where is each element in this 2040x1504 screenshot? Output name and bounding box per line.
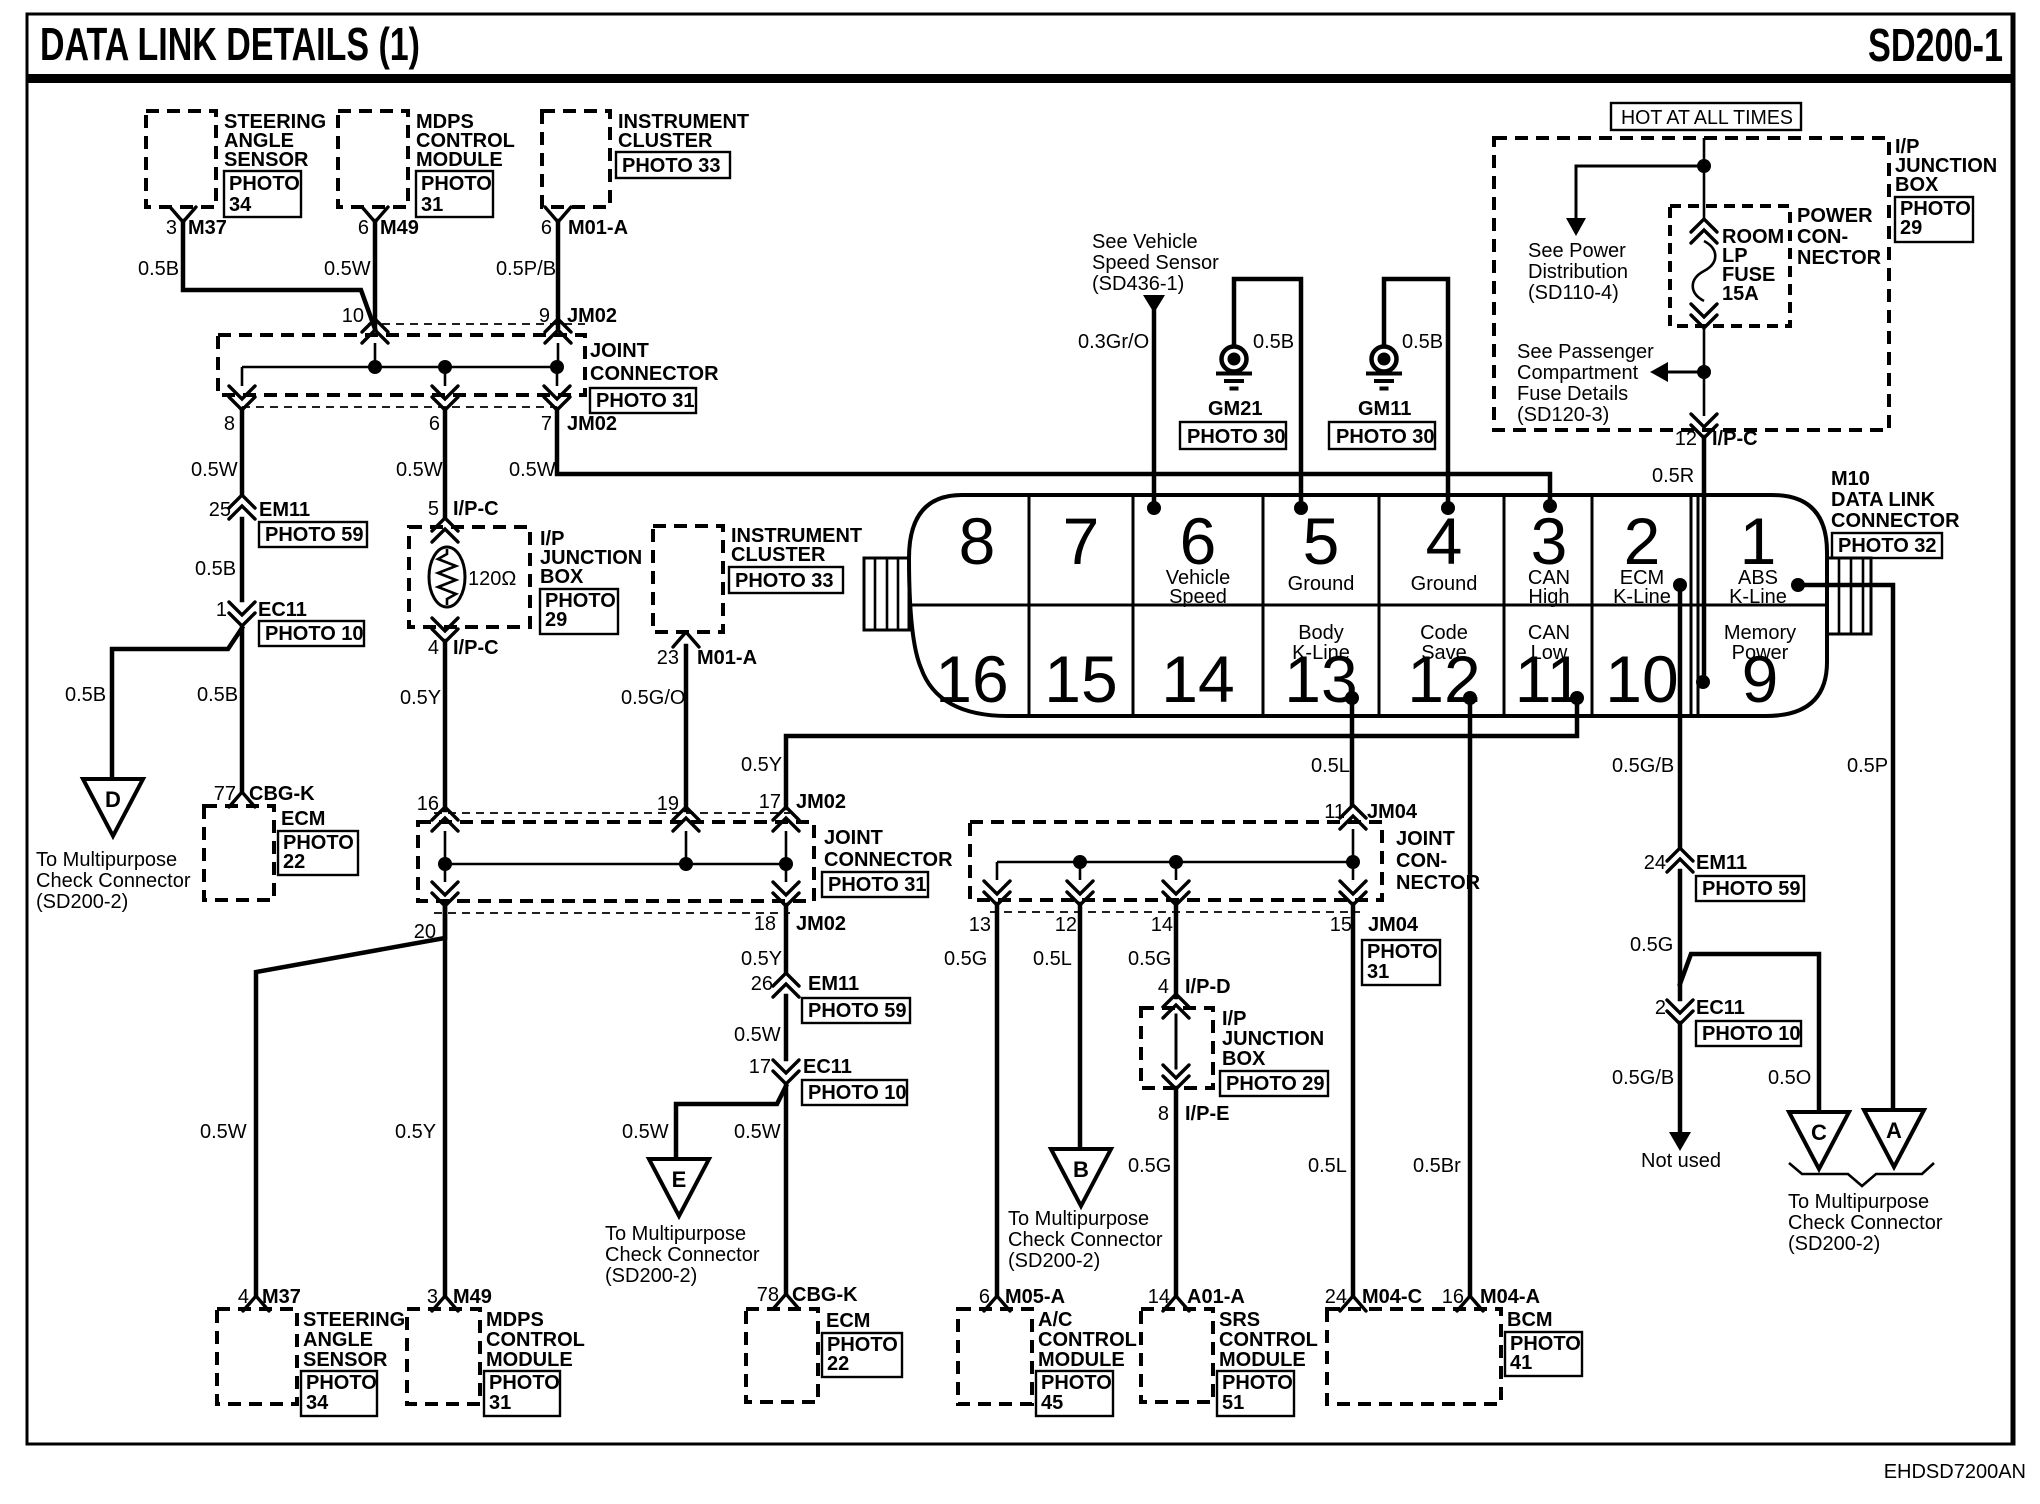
arrow not used — [1669, 1132, 1691, 1151]
svg-text:PHOTO 10: PHOTO 10 — [1702, 1023, 1801, 1045]
svg-text:EM11: EM11 — [1696, 852, 1747, 874]
svg-text:77: 77 — [214, 783, 236, 805]
svg-text:JM02: JM02 — [567, 305, 617, 327]
svg-text:PHOTO 10: PHOTO 10 — [808, 1082, 907, 1104]
photo 29 box (top right) — [1895, 197, 1973, 242]
svg-text:SD200-1: SD200-1 — [1868, 19, 2003, 71]
svg-text:24: 24 — [1325, 1286, 1347, 1308]
svg-text:JM04: JM04 — [1367, 801, 1418, 823]
svg-text:34: 34 — [229, 194, 252, 216]
wire branch 0.5O to C triangle — [1680, 954, 1819, 1112]
svg-text:CON-: CON- — [1396, 850, 1447, 872]
svg-text:NECTOR: NECTOR — [1797, 247, 1882, 269]
DLC pin 4 — [1411, 504, 1478, 595]
destination triangle A — [1864, 1110, 1924, 1167]
svg-text:PHOTO 59: PHOTO 59 — [1702, 878, 1801, 900]
svg-text:6: 6 — [358, 217, 369, 239]
node DLC pin 12 — [1463, 691, 1477, 705]
svg-text:0.5W: 0.5W — [191, 459, 238, 481]
svg-text:EM11: EM11 — [808, 973, 859, 995]
svg-text:STEERING: STEERING — [303, 1309, 405, 1331]
JM02 pin 7 out-arrow — [541, 386, 617, 435]
svg-text:PHOTO 59: PHOTO 59 — [808, 1000, 907, 1022]
svg-text:31: 31 — [421, 194, 443, 216]
svg-text:0.5Y: 0.5Y — [741, 754, 782, 776]
svg-text:JOINT: JOINT — [590, 340, 649, 362]
svg-text:(SD200-2): (SD200-2) — [1788, 1233, 1880, 1255]
svg-text:Speed: Speed — [1169, 586, 1227, 608]
svg-text:9: 9 — [539, 305, 550, 327]
arrow to passenger compartment fuse details — [1650, 362, 1704, 382]
connector I/P-D pin 4 — [1158, 976, 1231, 1018]
junction dot pin17 — [779, 857, 793, 871]
svg-text:E: E — [672, 1167, 687, 1192]
svg-text:8: 8 — [1158, 1103, 1169, 1125]
joint connector upper thin dashed lines — [242, 324, 585, 407]
svg-text:4: 4 — [1158, 976, 1169, 998]
svg-text:See Vehicle: See Vehicle — [1092, 231, 1198, 253]
steering angle sensor box (top) — [146, 111, 216, 207]
wire branch to E triangle — [676, 1086, 786, 1159]
svg-text:CON-: CON- — [1797, 226, 1848, 248]
svg-text:11: 11 — [1324, 801, 1345, 823]
ECM box (left) — [204, 806, 274, 900]
svg-text:13: 13 — [969, 914, 991, 936]
destination triangle B — [1051, 1149, 1111, 1206]
svg-text:0.3Gr/O: 0.3Gr/O — [1078, 331, 1149, 353]
svg-text:EHDSD7200AN: EHDSD7200AN — [1884, 1461, 2026, 1483]
svg-text:M04-A: M04-A — [1480, 1286, 1540, 1308]
svg-text:NECTOR: NECTOR — [1396, 872, 1481, 894]
svg-text:4: 4 — [1426, 504, 1463, 578]
svg-text:0.5Br: 0.5Br — [1413, 1155, 1461, 1177]
svg-text:11: 11 — [1515, 642, 1584, 716]
svg-text:M49: M49 — [380, 217, 419, 239]
svg-text:GM21: GM21 — [1208, 398, 1262, 420]
svg-text:PHOTO 30: PHOTO 30 — [1336, 426, 1435, 448]
svg-text:M04-C: M04-C — [1362, 1286, 1422, 1308]
svg-text:(SD436-1): (SD436-1) — [1092, 273, 1184, 295]
photo 22 box (left ECM) — [278, 831, 358, 875]
destination triangle D — [83, 779, 143, 836]
svg-text:22: 22 — [827, 1353, 849, 1375]
photo 32 box — [1832, 533, 1942, 558]
svg-text:CLUSTER: CLUSTER — [618, 130, 713, 152]
SRS control module box — [1141, 1309, 1213, 1402]
svg-text:I/P-C: I/P-C — [453, 498, 499, 520]
wire 0.5B GM11 to DLC pin4 — [1384, 279, 1448, 508]
svg-text:CONTROL: CONTROL — [486, 1329, 585, 1351]
svg-text:17: 17 — [749, 1056, 771, 1078]
svg-text:15A: 15A — [1722, 283, 1759, 305]
svg-text:High: High — [1528, 586, 1569, 608]
connector M37 pin 4 (bottom) — [238, 1286, 301, 1311]
svg-text:Memory: Memory — [1724, 622, 1796, 644]
JM02 pin 16 in-arrow — [417, 793, 458, 831]
room lamp fuse 15A — [1691, 219, 1784, 328]
svg-text:0.5P: 0.5P — [1847, 755, 1888, 777]
title separator bar — [27, 74, 2014, 83]
joint connector lower internal bus — [445, 831, 786, 882]
svg-text:Check Connector: Check Connector — [36, 870, 191, 892]
svg-text:CAN: CAN — [1528, 622, 1570, 644]
svg-text:JUNCTION: JUNCTION — [1222, 1028, 1324, 1050]
svg-text:Compartment: Compartment — [1517, 362, 1639, 384]
svg-text:PHOTO 31: PHOTO 31 — [596, 390, 695, 412]
svg-text:I/P: I/P — [1222, 1008, 1246, 1030]
svg-text:CONTROL: CONTROL — [1219, 1329, 1318, 1351]
photo 30 box (GM11) — [1329, 422, 1435, 449]
svg-text:10: 10 — [1605, 642, 1678, 716]
svg-text:Check Connector: Check Connector — [605, 1244, 760, 1266]
junction dot pin10 — [368, 360, 382, 374]
svg-text:PHOTO: PHOTO — [421, 173, 492, 195]
node memory power junction — [1696, 675, 1710, 689]
svg-text:CONNECTOR: CONNECTOR — [590, 363, 719, 385]
svg-text:M49: M49 — [453, 1286, 492, 1308]
svg-text:15: 15 — [1330, 914, 1352, 936]
svg-text:0.5W: 0.5W — [509, 459, 556, 481]
wire 0.5G/B not used — [1678, 1023, 1683, 1133]
svg-text:PHOTO: PHOTO — [1367, 941, 1438, 963]
svg-text:ECM: ECM — [826, 1310, 870, 1332]
svg-text:MODULE: MODULE — [1219, 1349, 1306, 1371]
destination triangle C — [1789, 1112, 1849, 1169]
photo 31 box (bottom MDPS) — [484, 1371, 560, 1416]
svg-text:45: 45 — [1041, 1392, 1063, 1414]
connector M01-A pin 6 — [541, 207, 628, 239]
wire 0.5W from M49 — [373, 221, 378, 329]
wire 0.5Br DLC pin12 to BCM — [1468, 700, 1473, 1296]
power connector box — [1670, 206, 1790, 326]
node DLC pin 6 — [1147, 501, 1161, 515]
svg-text:17: 17 — [759, 791, 781, 813]
photo 33 box (middle) — [729, 567, 843, 593]
connector I/P-C pin 4 — [428, 618, 499, 659]
svg-text:0.5R: 0.5R — [1652, 465, 1694, 487]
svg-text:3: 3 — [166, 217, 177, 239]
wire 0.5W pin20 to M37 — [256, 905, 445, 1296]
svg-text:BOX: BOX — [1222, 1048, 1266, 1070]
connector CBG-K pin 78 — [757, 1284, 858, 1309]
svg-text:A01-A: A01-A — [1187, 1286, 1245, 1308]
node power junction lower — [1697, 365, 1711, 379]
wire 0.5G JM04 pin13 to M05-A — [995, 904, 1000, 1296]
svg-text:4: 4 — [428, 637, 439, 659]
svg-text:0.5G/B: 0.5G/B — [1612, 1067, 1674, 1089]
JM04 internal bus — [997, 829, 1353, 880]
svg-text:I/P-C: I/P-C — [1712, 428, 1758, 450]
connector EM11 pin 26 — [751, 973, 859, 997]
connector I/P-C pin 12 — [1675, 414, 1758, 450]
svg-text:16: 16 — [935, 642, 1008, 716]
svg-text:29: 29 — [1900, 217, 1922, 239]
junction dot pin6 — [438, 360, 452, 374]
svg-text:MDPS: MDPS — [486, 1309, 544, 1331]
svg-text:13: 13 — [1284, 642, 1357, 716]
svg-text:Body: Body — [1298, 622, 1344, 644]
svg-text:23: 23 — [657, 647, 679, 669]
svg-text:51: 51 — [1222, 1392, 1244, 1414]
connector EC11 pin 1 — [216, 599, 307, 626]
svg-text:PHOTO: PHOTO — [306, 1372, 377, 1394]
svg-text:14: 14 — [1148, 1286, 1170, 1308]
connector A01-A pin 14 — [1148, 1286, 1245, 1311]
DLC right tab — [1827, 558, 1871, 634]
photo 22 box (bottom ECM) — [822, 1333, 902, 1377]
node DLC pin 11 — [1570, 691, 1584, 705]
wire 0.3Gr/O to DLC pin6 — [1152, 310, 1157, 508]
svg-text:0.5B: 0.5B — [195, 558, 236, 580]
svg-text:18: 18 — [754, 913, 776, 935]
photo 10 box (EC11 17) — [802, 1080, 907, 1105]
photo 34 box (top) — [224, 171, 301, 217]
svg-text:25: 25 — [209, 499, 231, 521]
svg-text:JOINT: JOINT — [1396, 828, 1455, 850]
photo 10 box (EC11 1) — [259, 621, 364, 646]
I/P junction box (lower) — [1141, 1008, 1213, 1088]
photo 59 box (EM11 25) — [259, 522, 367, 547]
ECM box (bottom) — [746, 1309, 818, 1402]
BCM box — [1327, 1309, 1501, 1404]
svg-text:BOX: BOX — [540, 566, 584, 588]
photo 34 box (bottom) — [301, 1371, 377, 1416]
svg-text:8: 8 — [224, 413, 235, 435]
wire inside I/P junction box — [1175, 1015, 1178, 1068]
wire 0.5P/B from M01-A — [556, 221, 561, 329]
svg-text:ECM: ECM — [281, 808, 325, 830]
svg-text:See Passenger: See Passenger — [1517, 341, 1654, 363]
svg-text:2: 2 — [1655, 997, 1666, 1019]
svg-text:0.5G/B: 0.5G/B — [1612, 755, 1674, 777]
svg-text:EM11: EM11 — [259, 499, 310, 521]
svg-text:ANGLE: ANGLE — [303, 1329, 373, 1351]
svg-text:26: 26 — [751, 973, 773, 995]
svg-text:0.5W: 0.5W — [396, 459, 443, 481]
photo 30 box (GM21) — [1180, 422, 1286, 449]
svg-text:0.5W: 0.5W — [200, 1121, 247, 1143]
resistor 120 ohm — [429, 547, 516, 607]
svg-text:To Multipurpose: To Multipurpose — [1788, 1191, 1929, 1213]
connector M37 pin 3 — [166, 207, 227, 239]
svg-text:0.5B: 0.5B — [1402, 331, 1443, 353]
svg-text:41: 41 — [1510, 1352, 1532, 1374]
svg-text:K-Line: K-Line — [1729, 586, 1787, 608]
svg-text:PHOTO 10: PHOTO 10 — [265, 623, 364, 645]
svg-text:16: 16 — [417, 793, 439, 815]
instrument cluster box (top) — [542, 111, 610, 207]
svg-text:Code: Code — [1420, 622, 1468, 644]
photo 41 box — [1505, 1332, 1582, 1376]
joint connector JM04 box — [970, 822, 1382, 900]
wire fuse to I/P-C 12 — [1703, 327, 1706, 416]
svg-text:0.5W: 0.5W — [734, 1024, 781, 1046]
svg-text:C: C — [1811, 1120, 1827, 1145]
svg-text:JM04: JM04 — [1368, 914, 1419, 936]
svg-text:JM02: JM02 — [796, 913, 846, 935]
destination triangle E — [649, 1159, 709, 1216]
svg-text:Distribution: Distribution — [1528, 261, 1628, 283]
JM02 pin 6 out-arrow — [429, 386, 458, 435]
connector EC11 pin 17 — [749, 1056, 852, 1084]
svg-text:POWER: POWER — [1797, 205, 1873, 227]
wire 0.5G JM04 pin14 to I/P-D — [1174, 904, 1179, 997]
svg-text:M05-A: M05-A — [1005, 1286, 1065, 1308]
photo 59 box (EM11 24) — [1696, 876, 1804, 901]
svg-text:22: 22 — [283, 851, 305, 873]
svg-text:PHOTO 30: PHOTO 30 — [1187, 426, 1286, 448]
svg-text:HOT AT ALL TIMES: HOT AT ALL TIMES — [1621, 107, 1793, 129]
connector M04-C pin 24 — [1325, 1286, 1422, 1311]
svg-text:0.5Y: 0.5Y — [400, 687, 441, 709]
svg-text:BCM: BCM — [1507, 1309, 1553, 1331]
arrow from vehicle speed sensor — [1143, 295, 1165, 313]
JM02 pin 19 in-arrow — [657, 793, 699, 831]
svg-text:0.5B: 0.5B — [138, 258, 179, 280]
svg-text:(SD110-4): (SD110-4) — [1528, 282, 1619, 304]
svg-text:PHOTO: PHOTO — [489, 1372, 560, 1394]
svg-text:To Multipurpose: To Multipurpose — [1008, 1208, 1149, 1230]
photo 31 box (top) — [416, 171, 493, 217]
svg-text:15: 15 — [1044, 642, 1117, 716]
svg-text:0.5B: 0.5B — [197, 684, 238, 706]
svg-text:K-Line: K-Line — [1613, 586, 1671, 608]
connector M49 pin 6 — [358, 207, 419, 239]
svg-text:0.5P/B: 0.5P/B — [496, 258, 556, 280]
connector M04-A pin 16 — [1442, 1286, 1540, 1311]
DLC left tab — [864, 558, 909, 630]
connector EC11 pin 2 — [1655, 997, 1745, 1024]
instrument cluster box (middle) — [653, 526, 723, 632]
wire 0.5G/B DLC pin2 down — [1678, 592, 1683, 847]
svg-text:(SD120-3): (SD120-3) — [1517, 404, 1609, 426]
svg-text:19: 19 — [657, 793, 679, 815]
connector EM11 pin 24 — [1644, 848, 1747, 874]
photo 51 box — [1217, 1371, 1294, 1416]
svg-text:Ground: Ground — [1288, 573, 1355, 595]
steering angle sensor box (bottom) — [217, 1309, 297, 1404]
svg-text:CONNECTOR: CONNECTOR — [1831, 510, 1960, 532]
wire 0.5P DLC pin1 to A triangle — [1798, 585, 1893, 1110]
photo 29 box (lower) — [1220, 1071, 1328, 1096]
DLC pin 13 — [1284, 622, 1357, 716]
DLC pin 12 — [1407, 622, 1480, 716]
photo 59 box (EM11 26) — [802, 998, 910, 1023]
wire battery feed into box — [1703, 138, 1706, 218]
svg-text:16: 16 — [1442, 1286, 1464, 1308]
node DLC pin 2 — [1673, 578, 1687, 592]
svg-text:To Multipurpose: To Multipurpose — [605, 1223, 746, 1245]
svg-text:0.5G: 0.5G — [1128, 948, 1171, 970]
brace under C and A triangles — [1789, 1163, 1934, 1186]
photo 33 box (top) — [616, 152, 730, 178]
junction dot pin16 — [438, 857, 452, 871]
svg-text:B: B — [1073, 1157, 1089, 1182]
svg-text:A/C: A/C — [1038, 1309, 1072, 1331]
svg-text:31: 31 — [489, 1392, 511, 1414]
junction dot JM04 14 — [1169, 855, 1183, 869]
svg-text:SRS: SRS — [1219, 1309, 1260, 1331]
photo 29 box (middle) — [540, 589, 618, 634]
JM04 pin 14 out-arrow — [1151, 881, 1189, 936]
JM02 pin 18 out-arrow — [754, 882, 846, 935]
joint connector internal bus — [242, 343, 558, 386]
JM04 pin 13 out-arrow — [969, 881, 1010, 936]
svg-text:SENSOR: SENSOR — [224, 149, 309, 171]
svg-text:8: 8 — [959, 504, 996, 578]
data link connector M10 outline — [909, 495, 1827, 716]
wire 0.5B GM21 to DLC pin5 — [1234, 279, 1301, 508]
junction dot pin9 — [550, 360, 564, 374]
svg-text:14: 14 — [1161, 642, 1234, 716]
svg-text:5: 5 — [1303, 504, 1340, 578]
svg-text:1: 1 — [216, 599, 227, 621]
wire 0.5W EM11 to EC11 (mid) — [784, 996, 789, 1059]
wire 0.5B from M37 to joint connector — [183, 221, 375, 329]
svg-text:EC11: EC11 — [803, 1056, 852, 1078]
svg-text:PHOTO 32: PHOTO 32 — [1838, 535, 1937, 557]
JM02 pin 8 out-arrow — [224, 386, 255, 435]
DLC cell dividers — [1029, 495, 1698, 716]
svg-text:78: 78 — [757, 1284, 779, 1306]
JM02 pin 9 in-arrow — [539, 305, 617, 343]
svg-text:4: 4 — [238, 1286, 249, 1308]
svg-text:CBG-K: CBG-K — [792, 1284, 858, 1306]
svg-text:Check Connector: Check Connector — [1008, 1229, 1163, 1251]
JM04 pin 15 out-arrow — [1330, 881, 1419, 936]
svg-text:EC11: EC11 — [258, 599, 307, 621]
wire 0.5W to CBG-K 78 — [784, 1086, 789, 1294]
svg-text:M37: M37 — [188, 217, 227, 239]
svg-text:0.5W: 0.5W — [324, 258, 371, 280]
svg-text:DATA LINK DETAILS (1): DATA LINK DETAILS (1) — [40, 18, 420, 70]
svg-text:PHOTO: PHOTO — [229, 173, 300, 195]
JM04 pin 11 in-arrow — [1324, 801, 1418, 829]
photo 45 box — [1036, 1371, 1113, 1416]
junction dot JM04 12 — [1073, 855, 1087, 869]
svg-text:0.5B: 0.5B — [1253, 331, 1294, 353]
wire 0.5B EM11 to EC11 — [240, 519, 245, 600]
svg-text:A: A — [1886, 1118, 1902, 1143]
svg-text:Fuse Details: Fuse Details — [1517, 383, 1628, 405]
wire 0.5Y pin20 to M49 — [443, 905, 448, 1296]
MDPS control module box (top) — [338, 111, 408, 207]
connector I/P-E pin 8 — [1158, 1065, 1230, 1125]
svg-text:0.5Y: 0.5Y — [741, 948, 782, 970]
svg-text:0.5G: 0.5G — [944, 948, 987, 970]
DLC pin 6 — [1166, 504, 1231, 608]
svg-text:0.5L: 0.5L — [1308, 1155, 1347, 1177]
node DLC pin 13 — [1345, 691, 1359, 705]
svg-text:12: 12 — [1675, 428, 1697, 450]
svg-text:9: 9 — [1742, 642, 1779, 716]
svg-text:DATA LINK: DATA LINK — [1831, 489, 1936, 511]
I/P junction box (power, top right) — [1494, 138, 1889, 430]
svg-text:6: 6 — [429, 413, 440, 435]
svg-text:0.5W: 0.5W — [622, 1121, 669, 1143]
joint connector JM02 (lower) box — [418, 822, 814, 901]
svg-text:CONTROL: CONTROL — [1038, 1329, 1137, 1351]
svg-text:CLUSTER: CLUSTER — [731, 544, 826, 566]
hot at all times label — [1611, 103, 1801, 130]
JM02 pin 10 in-arrow — [342, 305, 388, 343]
joint connector lower thin dashed lines — [434, 813, 790, 913]
DLC pin 5 — [1288, 504, 1355, 595]
svg-text:D: D — [105, 787, 121, 812]
ground GM11 — [1358, 347, 1411, 421]
svg-text:MODULE: MODULE — [486, 1349, 573, 1371]
svg-text:Ground: Ground — [1411, 573, 1478, 595]
